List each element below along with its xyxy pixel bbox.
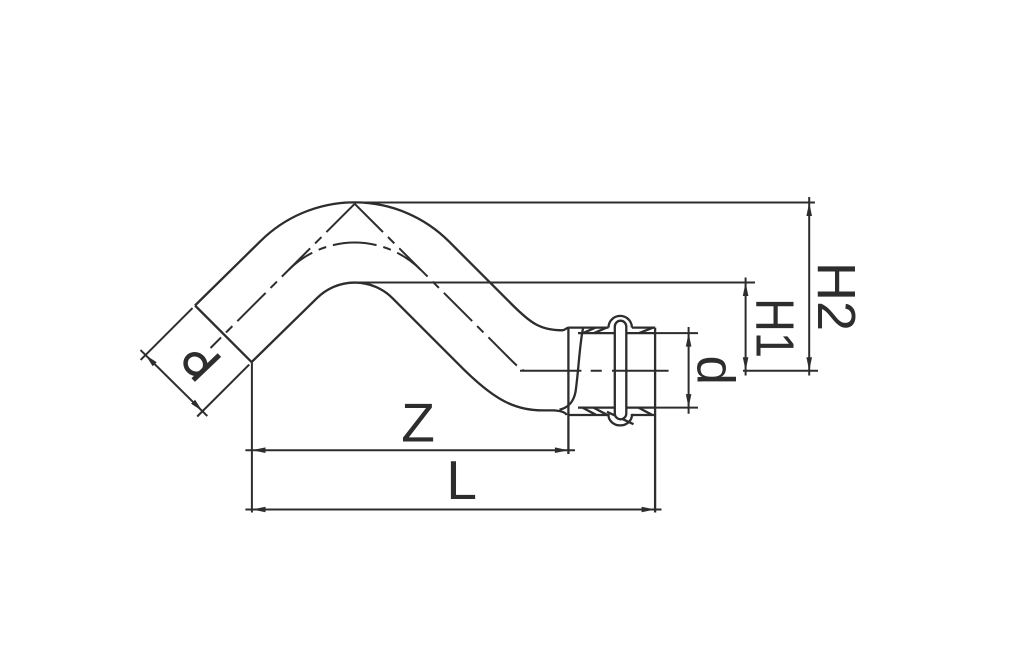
arrow d left upper	[146, 355, 157, 366]
dim d left line	[141, 350, 208, 416]
pipe outer-bottom outline	[252, 283, 567, 415]
socket inner bottom line	[578, 406, 655, 408]
svg-text:Z: Z	[401, 392, 435, 454]
dim d right extension lines	[656, 333, 698, 408]
socket transition slant	[560, 328, 584, 409]
hatch marks top	[583, 328, 653, 333]
bead bottom hatch slash	[607, 412, 634, 424]
pipe left end face	[195, 306, 252, 363]
arrow H2 bottom	[806, 357, 812, 371]
left Z/L extension line	[251, 362, 253, 512]
arrow L left	[252, 507, 266, 513]
svg-text:d: d	[686, 355, 745, 384]
dim H1 line	[745, 278, 747, 376]
socket inner top line	[578, 332, 655, 334]
svg-text:H2: H2	[806, 262, 866, 331]
dim Z line	[245, 449, 575, 451]
centerline right leg	[355, 204, 524, 371]
arrow H2 top	[806, 203, 812, 217]
svg-text:H1: H1	[745, 298, 806, 358]
arrow H1 bottom	[743, 357, 749, 371]
arrow Z left	[252, 447, 266, 453]
socket bottom edge	[568, 414, 655, 416]
arrow d right top	[686, 333, 692, 347]
centerline left leg	[211, 204, 355, 348]
dim d left extension from A2	[197, 365, 249, 417]
arrow d right bottom	[686, 394, 692, 408]
dim d left extension from A1	[141, 308, 193, 360]
H2 top extension line	[344, 202, 816, 204]
dim d right line	[688, 327, 690, 414]
arrow d left lower	[191, 400, 202, 411]
centerline top bend arc	[289, 243, 421, 270]
bead top bump	[609, 316, 632, 328]
H1 top extension line	[354, 282, 755, 284]
hatch marks bottom	[583, 408, 653, 415]
centerline horizontal dashes	[520, 370, 669, 372]
socket left edge + Z extension line	[567, 328, 569, 454]
label d left (drawn glyph)	[182, 350, 220, 380]
arrow L right	[642, 507, 656, 513]
svg-text:L: L	[446, 449, 477, 511]
pipe outer-top outline	[195, 202, 568, 330]
arrow Z right	[555, 447, 569, 453]
dim L line	[245, 509, 661, 511]
arrow H1 top	[743, 283, 749, 297]
bead slot	[615, 321, 627, 420]
H1 H2 bottom extension line	[743, 370, 818, 372]
dim H2 line	[808, 197, 810, 376]
socket right end + L extension line	[654, 328, 656, 513]
bead bottom bump	[606, 415, 635, 425]
socket top edge	[568, 326, 655, 328]
